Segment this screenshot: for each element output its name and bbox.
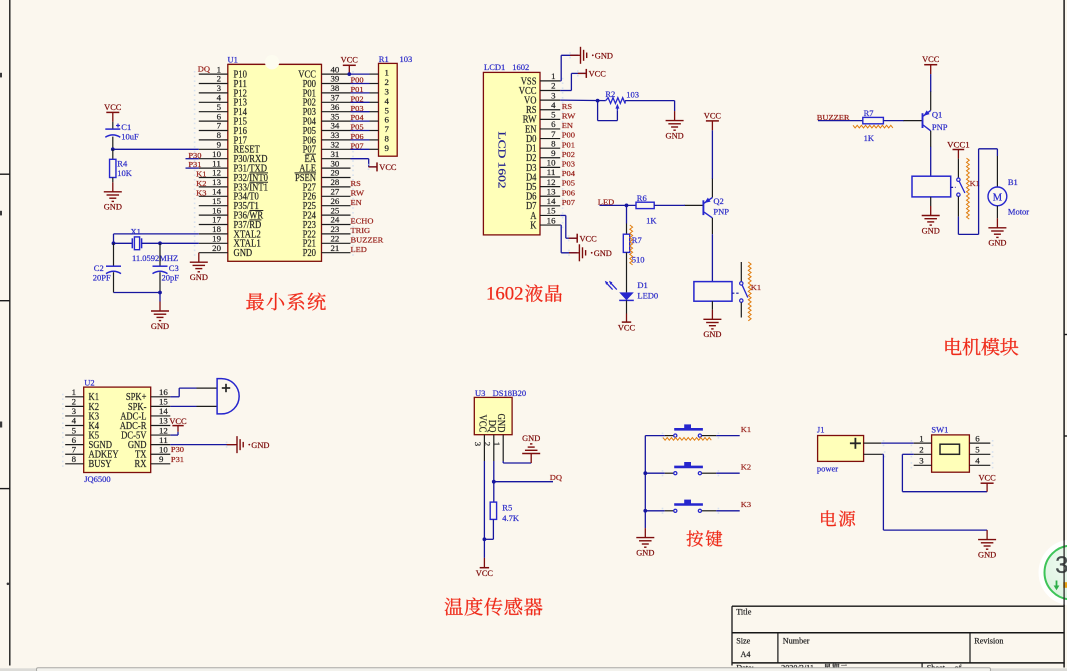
lcd pin 9 D2 [526, 149, 563, 164]
pin 31 EA [305, 150, 354, 165]
pin 11 P31/TXD [194, 159, 268, 174]
svg-text:2: 2 [551, 82, 555, 91]
power VCC lcd pin2 [577, 69, 606, 79]
svg-text:Q2: Q2 [713, 196, 723, 206]
svg-text:RW: RW [351, 188, 365, 197]
U2 pin 12 DC-5V [121, 426, 170, 441]
wire LED net [600, 204, 637, 208]
svg-text:11: 11 [212, 159, 221, 168]
pin 13 P33/INT1 [194, 178, 268, 193]
wire contact to motor loop [958, 149, 997, 235]
svg-text:8: 8 [217, 131, 221, 140]
lcd LCD1 body [483, 72, 540, 235]
relay coil K1b [912, 176, 951, 197]
svg-text:P31: P31 [171, 455, 184, 464]
relay coil K1a [694, 234, 732, 301]
svg-text:11: 11 [547, 168, 556, 177]
svg-text:P07: P07 [351, 141, 364, 150]
scrollbar track [0, 668, 1067, 671]
pin 9 RESET [194, 141, 260, 156]
svg-text:P01: P01 [562, 140, 575, 149]
svg-text:VCC: VCC [169, 417, 187, 426]
motor B1 [988, 156, 1029, 216]
svg-text:37: 37 [331, 94, 340, 103]
resistor R6 [636, 193, 657, 226]
lcd pin 13 D6 [526, 187, 563, 202]
svg-text:17: 17 [212, 216, 221, 225]
power VCC EA [368, 162, 397, 172]
svg-text:10K: 10K [117, 168, 133, 178]
svg-text:21: 21 [331, 244, 340, 253]
U2 pin 14 ADC-L [120, 407, 170, 422]
pin 39 P00 [303, 75, 354, 90]
heading 按键 [687, 530, 723, 546]
U2 pin 6 SGND [62, 436, 112, 451]
svg-text:1K: 1K [864, 133, 875, 143]
svg-text:23: 23 [331, 225, 340, 234]
net label P30 [186, 151, 202, 160]
svg-text:9: 9 [217, 141, 221, 150]
lcd pin 7 D0 [526, 130, 563, 145]
U2 pin 10 TX [135, 445, 170, 460]
svg-text:Motor: Motor [1008, 206, 1029, 216]
wire VSS to ground [560, 55, 578, 81]
wire J1 to SW1 [881, 442, 913, 444]
svg-text:9: 9 [159, 455, 163, 464]
overlay halo [1039, 540, 1067, 606]
wire VCC pin2 [560, 73, 586, 90]
svg-text:13: 13 [547, 187, 556, 196]
svg-text:ECHO: ECHO [351, 217, 374, 226]
svg-text:GND: GND [666, 131, 684, 140]
wire button bus [643, 436, 647, 528]
svg-text:LED0: LED0 [637, 291, 658, 301]
wire C1 to node [112, 137, 114, 150]
crystal X1 [114, 226, 179, 263]
pushbutton K1 [645, 424, 739, 438]
pin 22 P21 [303, 235, 354, 250]
svg-text:10: 10 [159, 445, 168, 454]
svg-text:EN: EN [562, 121, 574, 130]
svg-text:P00: P00 [562, 131, 575, 140]
power VCC Q2 [704, 111, 722, 130]
pin 40 VCC [298, 65, 354, 80]
svg-text:1602: 1602 [512, 62, 529, 72]
svg-text:GND: GND [190, 273, 208, 282]
svg-text:P05: P05 [562, 179, 575, 188]
pin 25 P24 [303, 206, 354, 221]
pin 20 GND [194, 244, 253, 259]
svg-text:P04: P04 [562, 169, 575, 178]
svg-text:RW: RW [562, 111, 576, 120]
svg-text:R6: R6 [637, 193, 647, 203]
svg-text:15: 15 [547, 207, 556, 216]
wire R2 to ground [625, 101, 675, 112]
svg-text:14: 14 [159, 407, 169, 416]
resistor network R1 body [379, 63, 398, 156]
U3 pin 3 VCC [473, 415, 487, 461]
power VCC U3 [476, 558, 494, 578]
led D1 [605, 280, 658, 300]
wire VCC to Q1 [930, 74, 932, 92]
svg-text:K: K [530, 220, 537, 231]
svg-text:GND: GND [988, 239, 1006, 248]
svg-text:VCC1: VCC1 [947, 141, 970, 150]
svg-text:24: 24 [331, 216, 341, 225]
svg-text:GND: GND [594, 249, 612, 258]
U2 pin 9 RX [135, 455, 171, 470]
ground relay [703, 301, 721, 339]
svg-text:20: 20 [212, 244, 221, 253]
ground J1 [978, 530, 996, 559]
pin 5 P14 [194, 103, 248, 118]
pin 38 P01 [303, 84, 354, 99]
svg-text:7: 7 [217, 122, 221, 131]
wire U3 GND [503, 461, 531, 463]
svg-text:26: 26 [331, 197, 340, 206]
svg-text:U1: U1 [228, 54, 238, 64]
SW1 pin 5 [969, 446, 993, 458]
R1 pin 9 [351, 144, 389, 153]
svg-text:5: 5 [975, 446, 979, 455]
svg-text:DQ: DQ [486, 420, 497, 433]
pin 36 P03 [303, 103, 354, 118]
transistor Q2 PNP [684, 179, 729, 235]
svg-text:39: 39 [331, 75, 340, 84]
svg-text:LCD1: LCD1 [484, 62, 505, 72]
svg-text:P30: P30 [188, 151, 201, 160]
pin 34 P05 [303, 122, 354, 137]
pin 7 P16 [194, 122, 247, 137]
heading 最小系统 [246, 293, 325, 311]
wire VO to R2 [560, 99, 606, 103]
svg-text:10uF: 10uF [121, 131, 139, 141]
svg-text:GND: GND [151, 322, 169, 331]
pin 14 P34/T0 [194, 188, 259, 203]
lcd pin 1 VSS [521, 72, 564, 87]
svg-text:33: 33 [331, 131, 340, 140]
pin 29 PSEN [295, 169, 354, 184]
svg-text:M: M [993, 192, 1003, 203]
SW1 pin 3 [911, 457, 932, 469]
svg-text:K1: K1 [741, 425, 751, 434]
wire SPK+ [170, 388, 196, 397]
svg-text:P00: P00 [351, 76, 364, 85]
lcd pin 12 D5 [526, 178, 563, 193]
wire U3 VCC [483, 461, 485, 558]
svg-text:RX: RX [135, 459, 147, 470]
R1 pin 7 [351, 125, 389, 134]
svg-text:8: 8 [551, 139, 555, 148]
svg-text:1: 1 [492, 442, 501, 446]
U2 pin 2 K2 [62, 398, 99, 413]
svg-text:GND: GND [234, 248, 253, 259]
svg-text:1: 1 [385, 69, 389, 78]
svg-text:U2: U2 [84, 377, 94, 387]
svg-text:11: 11 [159, 436, 168, 445]
ground buttons [636, 528, 654, 557]
pin 8 P17 [194, 131, 247, 146]
svg-text:40: 40 [331, 65, 340, 74]
svg-text:27: 27 [331, 188, 340, 197]
wire Q1 collector to relay [930, 147, 932, 176]
svg-text:4.7K: 4.7K [502, 513, 520, 523]
svg-text:Q1: Q1 [932, 110, 942, 120]
pin 10 P30/RXD [194, 150, 268, 165]
pin 35 P04 [303, 112, 354, 127]
svg-text:9: 9 [385, 144, 389, 153]
ground U1 pin20 [190, 253, 208, 282]
wire A pin15 to VCC [560, 215, 577, 238]
pin 6 P15 [194, 112, 247, 127]
svg-text:C2: C2 [94, 263, 104, 273]
power VCC lcd pin15 [568, 234, 597, 244]
power VCC R1 [341, 56, 359, 76]
svg-text:K2: K2 [196, 179, 206, 188]
hatch R7 1K [853, 125, 893, 128]
pin 21 P20 [303, 244, 354, 259]
wire K pin16 to ground [560, 225, 577, 253]
wire XTAL2 [114, 234, 199, 243]
svg-text:5: 5 [217, 103, 221, 112]
svg-text:1K: 1K [646, 216, 657, 226]
SW1 pin 1 [911, 434, 932, 446]
svg-text:34: 34 [331, 122, 341, 131]
svg-text:LED: LED [351, 245, 368, 254]
lcd pin 11 D4 [526, 168, 563, 183]
svg-text:P06: P06 [351, 132, 364, 141]
svg-text:38: 38 [331, 84, 340, 93]
svg-text:R1: R1 [379, 54, 389, 64]
lcd pin 2 VCC [519, 82, 564, 97]
svg-text:A4: A4 [741, 650, 751, 659]
wire SW1 pin2 to VCC [902, 454, 987, 491]
svg-text:7: 7 [72, 445, 76, 454]
svg-text:16: 16 [547, 216, 556, 225]
capacitor C1 [105, 122, 139, 141]
pin 12 P32/INT0 [194, 169, 268, 184]
U3 pin 2 DQ [483, 420, 497, 461]
svg-text:EN: EN [351, 198, 363, 207]
pin 18 XTAL2 [194, 225, 261, 240]
svg-text:VCC: VCC [704, 111, 722, 120]
heading 电源 [821, 510, 855, 526]
svg-text:35: 35 [331, 112, 340, 121]
U2 pin 16 SPK+ [126, 388, 170, 403]
heading 1602液晶 [486, 283, 562, 304]
svg-text:X1: X1 [131, 226, 141, 236]
U2 pin 1 K1 [62, 388, 99, 403]
svg-text:11.0592MHZ: 11.0592MHZ [132, 253, 178, 263]
hatch K1 contact [748, 262, 751, 321]
R1 pin 3 [351, 88, 389, 97]
pin 4 P13 [194, 94, 247, 109]
svg-text:30: 30 [331, 159, 340, 168]
hatch R7 [630, 225, 633, 265]
pin 23 P22 [303, 225, 354, 240]
pin 15 P35/T1 [194, 197, 259, 212]
svg-text:14: 14 [547, 197, 557, 206]
svg-text:3: 3 [473, 442, 482, 446]
svg-text:K1: K1 [196, 170, 206, 179]
transistor Q1 PNP [904, 92, 948, 148]
svg-text:R4: R4 [117, 159, 128, 169]
svg-text:2: 2 [72, 398, 76, 407]
pin 19 XTAL1 [194, 235, 261, 250]
pin 32 P07 [303, 141, 354, 156]
wire R6 to Q2 base [654, 204, 685, 206]
title block texts [736, 608, 1003, 671]
svg-text:3: 3 [1055, 552, 1067, 579]
svg-text:C3: C3 [169, 263, 179, 273]
svg-text:510: 510 [632, 254, 645, 264]
svg-text:5: 5 [551, 111, 555, 120]
svg-text:K2: K2 [741, 462, 751, 471]
ground crystal [151, 302, 169, 331]
svg-text:R7: R7 [632, 235, 642, 245]
svg-text:6: 6 [217, 112, 221, 121]
svg-text:R7: R7 [864, 108, 874, 118]
R1 pin 1 [351, 69, 389, 78]
svg-text:VCC: VCC [476, 569, 494, 578]
svg-text:Number: Number [783, 636, 810, 645]
sheet right border [1063, 0, 1065, 668]
wire caps to ground [114, 291, 162, 302]
pin 30 ALE [299, 159, 354, 174]
svg-text:8: 8 [72, 455, 76, 464]
svg-text:P04: P04 [351, 113, 364, 122]
U2 pin 15 SPK- [128, 398, 170, 413]
SW1 pin 2 [911, 446, 932, 458]
svg-text:P20: P20 [303, 248, 316, 259]
potentiometer R2 [605, 89, 639, 111]
power VCC C1 [104, 103, 122, 122]
pin 2 P11 [194, 75, 247, 90]
right border over circle [1063, 540, 1065, 606]
svg-text:VCC: VCC [104, 103, 122, 112]
R1 pin 5 [351, 106, 389, 115]
svg-text:BUZZER: BUZZER [351, 235, 385, 244]
svg-text:RS: RS [562, 102, 572, 111]
svg-text:Title: Title [736, 608, 752, 617]
pushbutton K3 [645, 500, 739, 514]
border zone marks [0, 73, 9, 585]
svg-text:6: 6 [551, 120, 555, 129]
svg-text:K1: K1 [751, 283, 761, 292]
svg-text:2: 2 [385, 78, 389, 87]
R1 pin 6 [351, 116, 389, 125]
ground motor [988, 206, 1006, 248]
relay contact K1 [732, 262, 748, 318]
pin 24 P23 [303, 216, 354, 231]
svg-text:20pF: 20pF [162, 273, 180, 283]
wire VCC to Q2 emitter [711, 130, 713, 179]
ground lcd pin16 [568, 244, 612, 261]
svg-text:32: 32 [331, 141, 340, 150]
svg-text:10: 10 [212, 150, 221, 159]
lcd vertical label LCD 1602 [496, 132, 507, 189]
svg-text:15: 15 [212, 197, 221, 206]
svg-text:3: 3 [919, 457, 923, 466]
U2 pin 5 K5 [62, 426, 99, 441]
lcd pin 5 RW [523, 111, 564, 126]
svg-text:VCC: VCC [589, 70, 607, 79]
svg-text:1: 1 [551, 72, 555, 81]
svg-text:P05: P05 [351, 123, 364, 132]
svg-text:3: 3 [385, 88, 389, 97]
J1 pin 1 [864, 440, 885, 446]
R1 pin 8 [351, 135, 389, 144]
svg-text:LCD 1602: LCD 1602 [496, 132, 507, 189]
SW1 inner rect [940, 444, 960, 454]
svg-text:GND: GND [703, 330, 721, 339]
capacitor C3 [153, 243, 180, 292]
svg-text:Size: Size [736, 636, 750, 645]
pin 3 P12 [194, 84, 247, 99]
svg-text:2: 2 [483, 442, 492, 446]
U2 pin 8 BUSY [62, 455, 112, 470]
svg-text:VCC: VCC [341, 56, 359, 65]
ground U2 [226, 436, 270, 453]
svg-text:U3: U3 [475, 388, 485, 398]
J1 pin 2 [864, 451, 886, 457]
svg-text:P07: P07 [562, 198, 575, 207]
pin 26 P25 [303, 197, 354, 212]
svg-text:GND: GND [522, 434, 540, 443]
svg-text:R5: R5 [502, 502, 512, 512]
power VCC D1 [618, 300, 636, 332]
svg-text:GND: GND [104, 203, 122, 212]
scrollbar thumb [37, 668, 991, 671]
resistor R7 1K [863, 108, 884, 143]
U2 pin 7 ADKEY [62, 445, 119, 460]
svg-text:22: 22 [331, 235, 340, 244]
pin 27 P26 [303, 188, 354, 203]
svg-text:7: 7 [385, 125, 389, 134]
svg-text:2: 2 [217, 75, 221, 84]
svg-text:5: 5 [72, 426, 76, 435]
wire XTAL1 [112, 241, 199, 245]
hatch K1 motor [967, 158, 970, 219]
svg-text:25: 25 [331, 206, 340, 215]
heading 温度传感器 [445, 597, 543, 615]
speaker LS1 [197, 379, 240, 414]
ground R2 [666, 111, 684, 140]
svg-text:1: 1 [217, 65, 221, 74]
svg-text:31: 31 [331, 150, 340, 159]
U3 pin 1 GND [492, 414, 506, 461]
R1 pin 4 [351, 97, 390, 106]
svg-text:VCC: VCC [618, 323, 636, 332]
svg-text:12: 12 [547, 178, 556, 187]
sheet left border [9, 0, 11, 666]
SW1 pin 4 [969, 457, 993, 469]
wire RESET [111, 147, 199, 151]
svg-text:DQ: DQ [198, 65, 211, 74]
svg-text:5: 5 [385, 106, 389, 115]
svg-text:VCC: VCC [922, 55, 940, 64]
connector J1 body [818, 436, 864, 462]
wire EA to VCC [351, 159, 378, 167]
overlay arrow [1054, 581, 1067, 591]
U2 pin 11 GND [128, 436, 170, 451]
svg-text:RS: RS [351, 179, 361, 188]
svg-text:8: 8 [385, 135, 389, 144]
svg-text:VCC: VCC [580, 234, 598, 243]
svg-text:P06: P06 [562, 188, 575, 197]
SW1 pin 6 [969, 434, 993, 446]
power VCC U2 [169, 417, 187, 435]
